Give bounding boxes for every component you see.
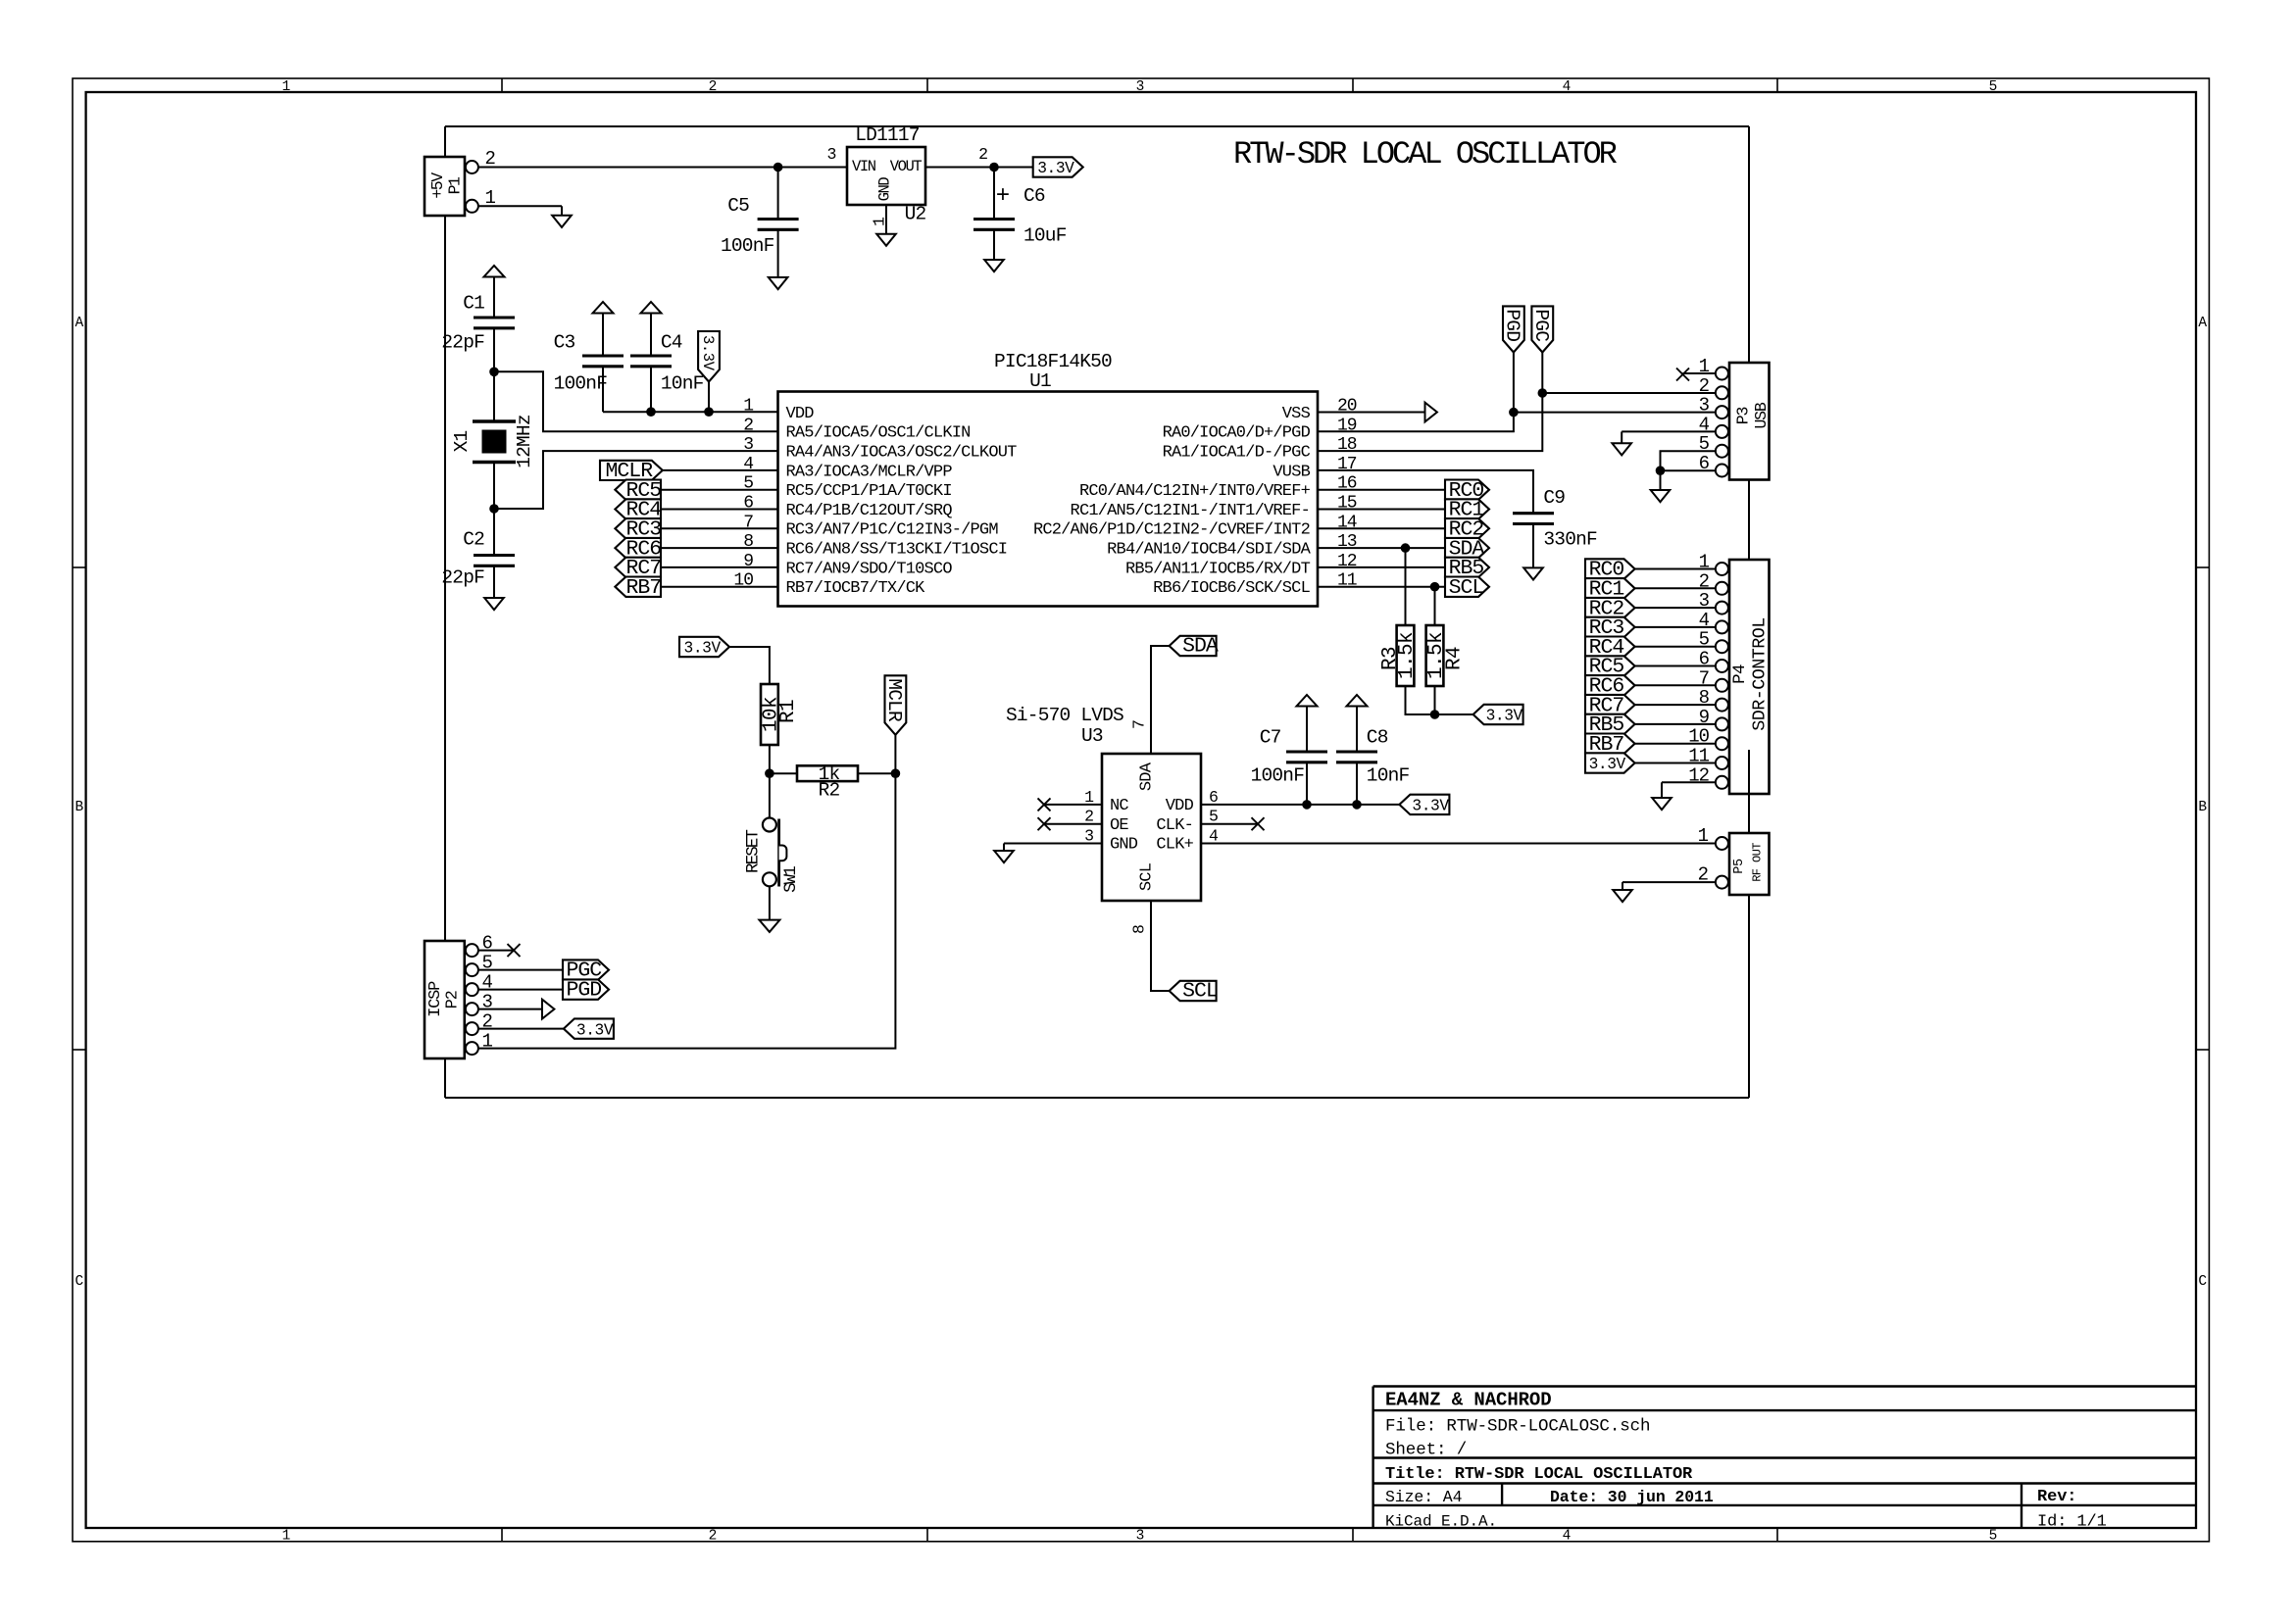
svg-text:P1: P1 [446, 176, 465, 194]
IC U3 Si-570 LVDS [1006, 705, 1219, 934]
svg-text:C6: C6 [1023, 185, 1045, 207]
no-connect X [1676, 369, 1689, 381]
ground [1523, 567, 1543, 579]
svg-text:1.5k: 1.5k [1396, 632, 1419, 679]
capacitor C4 10nF [630, 332, 704, 413]
net label MCLR flag [883, 675, 906, 735]
svg-text:1: 1 [743, 397, 753, 417]
wire VDD line to U1 pin1 [603, 411, 778, 413]
power 3.3V arrow [1347, 695, 1368, 752]
wire RB5 to P4 pin9 [1635, 723, 1717, 725]
svg-text:RC4/P1B/C12OUT/SRQ: RC4/P1B/C12OUT/SRQ [786, 502, 953, 520]
label PGC [1530, 306, 1553, 352]
svg-text:1: 1 [1698, 825, 1709, 847]
svg-text:2: 2 [1699, 375, 1710, 397]
svg-text:C: C [2198, 1274, 2207, 1290]
wire outline right segments [1748, 126, 1750, 1098]
svg-text:+5V: +5V [428, 172, 447, 199]
wire R2 to MCLR node [858, 772, 895, 774]
net label SCL [1445, 576, 1489, 600]
svg-text:X1: X1 [451, 431, 473, 453]
svg-text:3.3V: 3.3V [684, 640, 722, 658]
ground [1651, 490, 1671, 502]
svg-text:GND: GND [875, 177, 893, 202]
power label 3.3V [679, 637, 729, 657]
power label 3.3V [1033, 157, 1083, 176]
svg-text:330nF: 330nF [1543, 528, 1597, 550]
svg-text:R4: R4 [1443, 647, 1466, 670]
svg-text:100nF: 100nF [1251, 765, 1305, 787]
resistor R3 1.5k [1379, 625, 1419, 686]
wire R1 to node [769, 745, 771, 773]
wire U3 pin8 SCL [1151, 901, 1170, 991]
svg-text:7: 7 [1129, 719, 1148, 729]
svg-text:3.3V: 3.3V [699, 335, 717, 371]
svg-text:2: 2 [978, 145, 988, 164]
svg-text:U2: U2 [905, 204, 926, 225]
net label RC4 [615, 499, 661, 522]
svg-text:3.3V: 3.3V [576, 1021, 614, 1039]
svg-text:RA1/IOCA1/D-/PGC: RA1/IOCA1/D-/PGC [1163, 444, 1311, 463]
svg-text:22pF: 22pF [441, 567, 484, 589]
power label 3.3V [1399, 795, 1449, 814]
svg-text:USB: USB [1752, 402, 1771, 428]
wire RC1 to P4 pin2 [1635, 587, 1717, 589]
svg-text:SCL: SCL [1449, 576, 1484, 600]
wire node to R2 [770, 772, 797, 774]
svg-text:P3: P3 [1733, 408, 1752, 425]
power arrow [542, 1000, 554, 1019]
net label RC0 [1585, 559, 1635, 582]
svg-text:2: 2 [709, 79, 718, 95]
svg-text:2: 2 [709, 1529, 718, 1545]
net label RC7 [1585, 694, 1635, 717]
svg-text:RB7/IOCB7/TX/CK: RB7/IOCB7/TX/CK [786, 579, 926, 598]
junction [704, 407, 714, 417]
wire P1 pin1 to ground [478, 206, 562, 216]
wire U1 pin15 to label RC1 [1318, 509, 1445, 511]
wire P3 pin1 stub [1683, 372, 1717, 374]
svg-text:10nF: 10nF [661, 373, 704, 395]
svg-text:12MHz: 12MHz [514, 415, 535, 468]
svg-text:P5: P5 [1732, 859, 1747, 874]
capacitor C2 22pF [441, 509, 515, 598]
svg-text:C7: C7 [1260, 727, 1281, 749]
junction [765, 768, 774, 778]
svg-text:CLK+: CLK+ [1156, 836, 1193, 855]
wire P2 pin3 [478, 1008, 542, 1010]
net label RC2 [1445, 518, 1489, 542]
capacitor C5 100nF [721, 168, 799, 278]
ground [1612, 443, 1631, 455]
svg-text:RC5/CCP1/P1A/T0CKI: RC5/CCP1/P1A/T0CKI [786, 482, 952, 501]
svg-text:Id: 1/1: Id: 1/1 [2037, 1513, 2107, 1532]
label PGD [1502, 306, 1524, 352]
svg-text:SDA: SDA [1182, 635, 1219, 659]
svg-text:22pF: 22pF [441, 332, 484, 354]
svg-text:RB6/IOCB6/SCK/SCL: RB6/IOCB6/SCK/SCL [1153, 579, 1310, 598]
svg-text:C2: C2 [463, 529, 484, 551]
svg-text:C9: C9 [1543, 487, 1565, 509]
svg-text:P2: P2 [443, 991, 462, 1008]
no-connect X [508, 944, 521, 957]
connector P2 ICSP [424, 933, 493, 1058]
svg-text:A: A [2198, 316, 2207, 331]
wire U1 VUSB pin17 to C9 [1318, 470, 1533, 514]
net label RB7 [615, 576, 661, 600]
net label RC1 [1585, 578, 1635, 602]
svg-text:+: + [996, 183, 1010, 210]
label PGC [563, 959, 609, 979]
svg-text:100nF: 100nF [554, 373, 608, 395]
wire P2 pin6 stub [478, 950, 514, 952]
wire P5 pin2 to ground [1622, 882, 1716, 890]
svg-text:RF OUT: RF OUT [1750, 843, 1764, 882]
capacitor C7 100nF [1251, 727, 1327, 805]
wire RC5 to P4 pin6 [1635, 665, 1717, 667]
wire RC0 to P4 pin1 [1635, 568, 1717, 570]
junction [1656, 466, 1666, 475]
wire RC3 to P4 pin4 [1635, 626, 1717, 628]
wire node to SW1 [769, 773, 771, 817]
svg-text:5: 5 [1989, 1529, 1998, 1545]
wire U2 VIN [778, 167, 847, 169]
svg-text:RC0/AN4/C12IN+/INT0/VREF+: RC0/AN4/C12IN+/INT0/VREF+ [1079, 482, 1311, 501]
junction [1430, 582, 1440, 592]
svg-text:CLK-: CLK- [1156, 816, 1193, 835]
junction [489, 368, 499, 377]
wire R3 bottom to R4 bottom [1406, 686, 1435, 714]
net label RB7 [1585, 733, 1635, 757]
svg-text:EA4NZ & NACHROD: EA4NZ & NACHROD [1385, 1390, 1552, 1411]
net label RB5 [1585, 713, 1635, 737]
no-connect X [1252, 817, 1265, 830]
svg-text:R1: R1 [777, 700, 800, 723]
wire MCLR node down to ICSP pin1 [478, 773, 896, 1048]
wire U3 pin7 SDA [1151, 646, 1170, 754]
svg-text:SDR-CONTROL: SDR-CONTROL [1749, 617, 1770, 731]
wire outline top [445, 125, 1749, 127]
wire P3 pin4 to ground [1622, 431, 1716, 443]
wire P1 pin2 to C5/U2 [478, 167, 778, 169]
net label RC4 [1585, 636, 1635, 660]
net label RB5 [1445, 557, 1489, 580]
resistor R2 1k [797, 763, 858, 802]
svg-text:RC6/AN8/SS/T13CKI/T1OSCI: RC6/AN8/SS/T13CKI/T1OSCI [786, 541, 1008, 560]
wire X1 top to U1 pin2 [494, 371, 778, 431]
svg-text:Date: 30 jun 2011: Date: 30 jun 2011 [1550, 1488, 1714, 1506]
wire node PGD to P3 pin3 [1514, 412, 1717, 414]
wire U1 pin19 D+/PGD to node [1318, 413, 1514, 432]
svg-text:3.3V: 3.3V [1412, 798, 1449, 815]
wire P3 pin5 [1661, 451, 1717, 470]
junction [989, 163, 999, 172]
svg-text:SCL: SCL [1182, 980, 1218, 1004]
svg-text:C: C [75, 1274, 83, 1290]
svg-text:C5: C5 [727, 195, 749, 217]
net label RC6 [1585, 675, 1635, 699]
net label SCL [1170, 981, 1217, 1001]
svg-text:SDA: SDA [1137, 762, 1156, 791]
power 3.3V arrow [1297, 695, 1318, 752]
svg-text:RC1/AN5/C12IN1-/INT1/VREF-: RC1/AN5/C12IN1-/INT1/VREF- [1071, 502, 1310, 520]
crystal X1 12MHz [451, 415, 535, 468]
connector P5 RF OUT [1698, 825, 1770, 895]
svg-text:KiCad E.D.A.: KiCad E.D.A. [1385, 1513, 1497, 1531]
svg-text:C3: C3 [554, 332, 575, 354]
svg-text:1: 1 [282, 1529, 291, 1545]
wire RC4 to U1 pin6 [661, 509, 778, 511]
svg-text:10uF: 10uF [1023, 225, 1067, 247]
power 3.3V arrow [484, 266, 505, 318]
svg-text:P4: P4 [1730, 664, 1750, 684]
net label RC0 [1445, 479, 1489, 503]
svg-text:U1: U1 [1029, 370, 1051, 392]
svg-text:3: 3 [1699, 395, 1710, 417]
power 3.3V arrow [593, 302, 614, 356]
wire SW1 to ground [769, 886, 771, 919]
svg-text:VDD: VDD [1166, 797, 1194, 815]
svg-text:10nF: 10nF [1367, 765, 1410, 787]
svg-text:RA0/IOCA0/D+/PGD: RA0/IOCA0/D+/PGD [1163, 424, 1311, 443]
svg-text:U3: U3 [1081, 725, 1103, 747]
svg-text:1: 1 [282, 79, 291, 95]
junction [891, 768, 901, 778]
capacitor C1 22pF [441, 293, 515, 372]
wire U1 pin13 to label SDA [1318, 547, 1445, 549]
wire U1 pin16 to label RC0 [1318, 489, 1445, 491]
wire RC4 to P4 pin5 [1635, 646, 1717, 648]
wire outline bottom [445, 1097, 1749, 1099]
wire 3.3V to R1 [729, 647, 770, 684]
svg-text:1: 1 [482, 1031, 493, 1053]
wire U3 VDD pin6 to 3.3V [1201, 804, 1399, 806]
wire U3 pin1 NC stub [1044, 804, 1102, 806]
net label RC7 [615, 557, 661, 580]
capacitor C9 330nF [1513, 487, 1597, 568]
wire RC2 to P4 pin3 [1635, 607, 1717, 609]
net label MCLR [600, 460, 663, 483]
junction [646, 407, 656, 417]
svg-text:GND: GND [1110, 836, 1138, 855]
svg-text:5: 5 [1989, 79, 1998, 95]
wire U1 pin18 D-/PGC to node [1318, 393, 1542, 451]
wire R4 bottom to 3.3V [1435, 686, 1473, 714]
wire U3 pin4 CLK+ to P5 pin1 [1201, 843, 1716, 845]
regulator U2 LD1117 [826, 124, 988, 226]
net label RC3 [615, 518, 661, 542]
svg-text:RESET: RESET [743, 830, 763, 873]
wire RB7 to P4 pin10 [1635, 743, 1717, 745]
power 3.3V arrow [641, 302, 662, 356]
wire P2 pin2 to 3.3V [478, 1028, 564, 1030]
svg-text:VIN: VIN [852, 158, 876, 175]
svg-text:C4: C4 [661, 332, 682, 354]
svg-text:PGD: PGD [1502, 309, 1523, 341]
connector P1 +5V [424, 148, 496, 216]
ground [994, 844, 1014, 863]
resistor R4 1.5k [1425, 625, 1466, 686]
svg-text:8: 8 [1129, 924, 1148, 934]
svg-text:Rev:: Rev: [2037, 1488, 2076, 1506]
junction [1538, 388, 1548, 398]
wire P2 pin4 to PGD [478, 989, 563, 991]
ground [759, 920, 779, 932]
svg-text:3.3V: 3.3V [1486, 708, 1523, 725]
svg-text:3.3V: 3.3V [1037, 160, 1074, 177]
ground [552, 216, 572, 227]
wire outline left [444, 126, 446, 1098]
junction [1430, 710, 1440, 719]
wire RC6 to P4 pin7 [1635, 684, 1717, 686]
net label RC3 [1585, 616, 1635, 640]
wire to ground [1660, 470, 1662, 490]
power flag 3.3V [698, 331, 720, 412]
svg-text:RC2/AN6/P1D/C12IN2-/CVREF/INT2: RC2/AN6/P1D/C12IN2-/CVREF/INT2 [1033, 521, 1310, 540]
svg-text:4: 4 [1563, 79, 1572, 95]
wire RC7 to P4 pin8 [1635, 704, 1717, 706]
wire U1 pin11 to label SCL [1318, 586, 1445, 588]
ground [984, 260, 1004, 271]
svg-text:RA5/IOCA5/OSC1/CLKIN: RA5/IOCA5/OSC1/CLKIN [786, 424, 971, 443]
wire U1 pin14 to label RC2 [1318, 527, 1445, 529]
svg-text:C1: C1 [463, 293, 484, 315]
power label 3.3V [564, 1018, 614, 1038]
net label RC5 [1585, 656, 1635, 679]
net label RC5 [615, 479, 661, 503]
svg-text:2: 2 [743, 416, 753, 435]
wire RC6 to U1 pin8 [661, 547, 778, 549]
wire RC7 to U1 pin9 [661, 566, 778, 568]
ground [876, 234, 896, 246]
junction [1302, 800, 1312, 810]
label PGD [563, 979, 609, 999]
ground [484, 598, 504, 610]
switch SW1 RESET [743, 818, 801, 893]
wire MCLR to U1 pin4 [663, 469, 778, 471]
svg-text:PIC18F14K50: PIC18F14K50 [994, 351, 1112, 372]
svg-text:RC3/AN7/P1C/C12IN3-/PGM: RC3/AN7/P1C/C12IN3-/PGM [786, 521, 999, 540]
svg-text:100nF: 100nF [721, 235, 774, 257]
resistor R1 10k [761, 684, 800, 745]
ground [1613, 890, 1632, 902]
svg-text:3: 3 [826, 145, 836, 164]
capacitor C8 10nF [1336, 727, 1410, 805]
svg-text:3.3V: 3.3V [1589, 756, 1626, 773]
junction [1401, 543, 1411, 553]
svg-text:3: 3 [743, 435, 753, 455]
wire RC5 to U1 pin5 [661, 489, 778, 491]
svg-text:RA4/AN3/IOCA3/OSC2/CLKOUT: RA4/AN3/IOCA3/OSC2/CLKOUT [786, 444, 1018, 463]
svg-text:R2: R2 [819, 780, 840, 802]
wire X1 to C2 [493, 463, 495, 510]
wire U1 VSS pin20 [1318, 412, 1425, 414]
svg-text:VDD: VDD [786, 405, 815, 423]
wire SCL to R4 [1434, 587, 1436, 625]
junction [489, 504, 499, 514]
no-connect X [1038, 817, 1051, 830]
net label SDA [1445, 537, 1489, 561]
wire P3 pin6 [1661, 469, 1717, 471]
svg-text:C8: C8 [1367, 727, 1388, 749]
svg-text:File: RTW-SDR-LOCALOSC.sch: File: RTW-SDR-LOCALOSC.sch [1385, 1417, 1650, 1437]
svg-text:Sheet: /: Sheet: / [1385, 1441, 1467, 1460]
svg-text:VSS: VSS [1282, 405, 1311, 423]
svg-text:LD1117: LD1117 [855, 124, 920, 146]
power label 3.3V [1473, 705, 1523, 724]
wire RC3 to U1 pin7 [661, 527, 778, 529]
svg-text:A: A [75, 316, 83, 331]
capacitor C3 100nF [554, 332, 624, 413]
connector P4 SDR-CONTROL [1688, 552, 1770, 795]
junction [1509, 408, 1519, 418]
svg-text:SCL: SCL [1137, 862, 1156, 891]
wire PGC flag stem [1541, 353, 1543, 394]
wire bus inside P4 [1748, 750, 1750, 833]
capacitor C6 10uF [973, 168, 1067, 261]
IC U1 PIC18F14K50 [733, 351, 1356, 607]
svg-text:SW1: SW1 [781, 866, 801, 893]
svg-text:Si-570 LVDS: Si-570 LVDS [1006, 705, 1123, 726]
wire U3 pin3 GND [1004, 843, 1102, 845]
svg-text:RB4/AN10/IOCB4/SDI/SDA: RB4/AN10/IOCB4/SDI/SDA [1107, 541, 1311, 560]
svg-text:Title: RTW-SDR LOCAL OSCILLATO: Title: RTW-SDR LOCAL OSCILLATOR [1385, 1465, 1693, 1484]
svg-text:ICSP: ICSP [426, 981, 445, 1017]
svg-text:RB5/AN11/IOCB5/RX/DT: RB5/AN11/IOCB5/RX/DT [1125, 560, 1311, 578]
ground [769, 277, 788, 289]
net label 3.3V [1585, 753, 1635, 773]
wire U2 GND pin [885, 205, 887, 234]
svg-text:PGC: PGC [1530, 309, 1552, 341]
svg-text:3: 3 [1136, 1529, 1145, 1545]
net label RC2 [1585, 597, 1635, 620]
svg-text:4: 4 [1563, 1529, 1572, 1545]
svg-text:B: B [2198, 800, 2207, 815]
svg-text:Size: A4: Size: A4 [1385, 1488, 1463, 1506]
wire SDA to R3 [1405, 548, 1407, 625]
svg-text:VOUT: VOUT [890, 158, 923, 175]
svg-text:RC7/AN9/SDO/T10SCO: RC7/AN9/SDO/T10SCO [786, 560, 953, 578]
wire RB7 to U1 pin10 [661, 586, 778, 588]
svg-text:RA3/IOCA3/MCLR/VPP: RA3/IOCA3/MCLR/VPP [786, 463, 953, 481]
wire U3 pin5 CLK- stub [1201, 823, 1258, 825]
svg-text:OE: OE [1110, 816, 1128, 835]
wire C1 to X1 [493, 371, 495, 421]
wire U2 VOUT to C6/3.3V [925, 167, 1033, 169]
svg-text:B: B [75, 800, 83, 815]
net label RC1 [1445, 499, 1489, 522]
wire 3.3V to P4 pin11 [1635, 762, 1717, 764]
junction [1352, 800, 1362, 810]
net label RC6 [615, 537, 661, 561]
svg-text:RB7: RB7 [626, 576, 662, 600]
wire U3 pin2 OE stub [1044, 823, 1102, 825]
wire P2 pin5 to PGC [478, 969, 563, 971]
no-connect X [1038, 798, 1051, 811]
svg-text:NC: NC [1110, 797, 1128, 815]
wire PGD flag stem [1513, 353, 1515, 413]
wire X1 bottom to U1 pin3 [494, 451, 778, 509]
junction [774, 163, 783, 172]
svg-text:VUSB: VUSB [1273, 463, 1310, 481]
wire U1 pin12 to label RB5 [1318, 566, 1445, 568]
connector P3 USB [1699, 356, 1771, 480]
wire node PGC to P3 pin2 [1542, 392, 1716, 394]
wire P4 pin12 to ground [1662, 782, 1716, 798]
power arrow VSS [1425, 403, 1437, 422]
svg-text:RTW-SDR LOCAL OSCILLATOR: RTW-SDR LOCAL OSCILLATOR [1233, 136, 1618, 172]
svg-text:MCLR: MCLR [883, 678, 905, 722]
